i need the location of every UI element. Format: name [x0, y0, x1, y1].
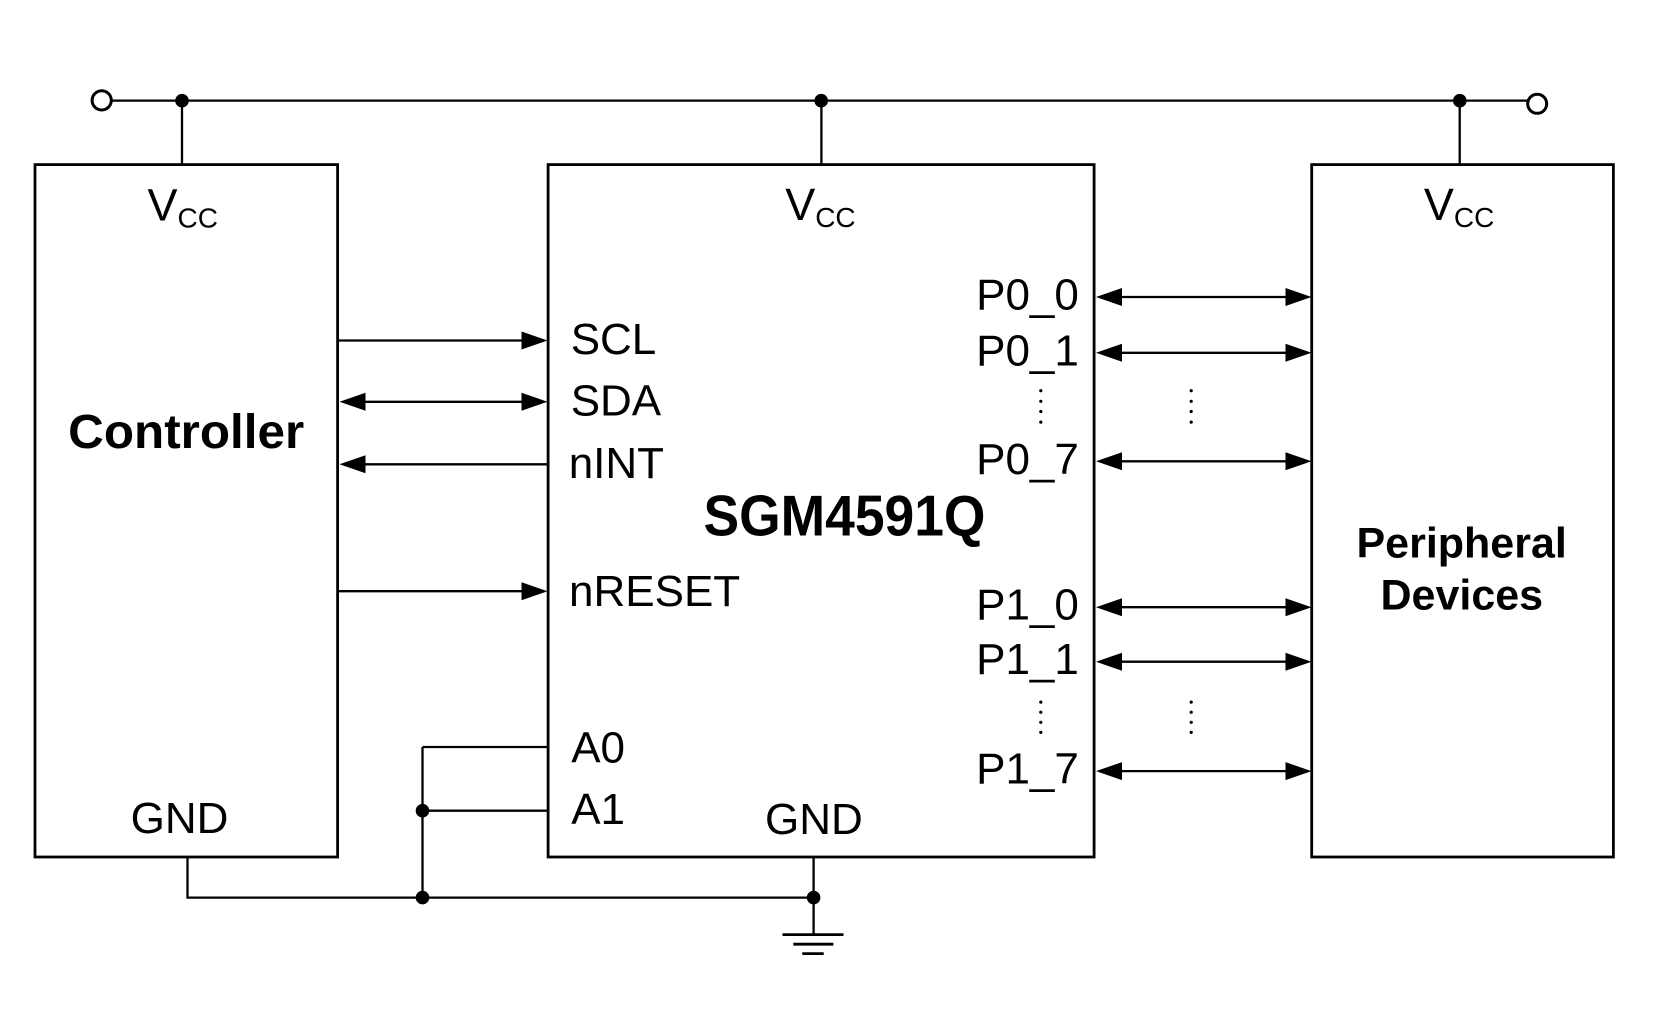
pin label GND Controller — [131, 794, 229, 843]
block Peripheral Devices — [1312, 165, 1614, 857]
label Devices — [1381, 572, 1544, 620]
svg-text:A1: A1 — [571, 785, 625, 834]
wire P0_1 bidirectional — [1096, 344, 1312, 362]
wire P1_7 bidirectional — [1096, 762, 1312, 780]
svg-text:P1_1: P1_1 — [976, 635, 1079, 684]
wire VCC top rail — [112, 99, 1527, 101]
ellipsis P1 labels — [1039, 701, 1042, 735]
wire P1_0 bidirectional — [1096, 598, 1312, 616]
label VCC Peripheral — [1424, 179, 1494, 233]
wire VCC stem Peripheral — [1459, 101, 1461, 165]
wire P1_1 bidirectional — [1096, 653, 1312, 671]
open terminal right (VCC input) — [1528, 94, 1547, 113]
wire GND stem SGM4591Q — [812, 857, 814, 935]
svg-text:Peripheral: Peripheral — [1357, 520, 1567, 568]
junction dot rail-Peripheral — [1453, 94, 1467, 108]
label VCC SGM4591Q — [785, 179, 855, 233]
junction dot rail-SGM4591Q — [814, 94, 828, 108]
wire A1 — [423, 810, 549, 812]
wire A0 — [423, 746, 549, 748]
svg-text:P0_7: P0_7 — [976, 435, 1079, 484]
ground symbol — [783, 935, 844, 954]
svg-text:GND: GND — [131, 794, 229, 843]
wire nINT — [340, 455, 548, 473]
svg-text:P1_7: P1_7 — [976, 745, 1079, 794]
ellipsis P0 labels — [1039, 389, 1042, 424]
svg-text:nINT: nINT — [569, 439, 664, 488]
pin label nRESET — [569, 567, 740, 616]
wire A0-A1-GND vertical — [421, 747, 423, 898]
svg-text:SDA: SDA — [571, 376, 662, 425]
label VCC Controller — [148, 179, 218, 233]
ellipsis P1 wires — [1190, 701, 1193, 735]
ellipsis P0 wires — [1190, 389, 1193, 424]
open terminal left (VCC input) — [92, 91, 111, 110]
pin label P1_0 — [976, 581, 1079, 630]
svg-text:SGM4591Q: SGM4591Q — [704, 483, 986, 547]
junction dot A-wire GND wire — [416, 891, 430, 905]
pin label A1 — [571, 785, 625, 834]
junction dot GND net — [807, 891, 821, 905]
wire VCC stem Controller — [181, 101, 183, 165]
svg-text:GND: GND — [765, 795, 863, 844]
pin label nINT — [569, 439, 664, 488]
svg-text:P0_1: P0_1 — [976, 326, 1079, 375]
label Controller — [68, 406, 304, 459]
wire VCC stem SGM4591Q — [820, 101, 822, 165]
svg-text:Devices: Devices — [1381, 572, 1544, 620]
pin label P1_7 — [976, 745, 1079, 794]
pin label P0_7 — [976, 435, 1079, 484]
svg-text:SCL: SCL — [571, 315, 657, 364]
svg-text:P1_0: P1_0 — [976, 581, 1079, 630]
wire SDA bidirectional — [340, 393, 548, 411]
wire nRESET — [338, 582, 548, 600]
svg-text:A0: A0 — [571, 724, 625, 773]
wire P0_7 bidirectional — [1096, 452, 1312, 470]
wire GND horizontal — [186, 896, 813, 898]
pin label P1_1 — [976, 635, 1079, 684]
block U1 SGM4591Q — [548, 165, 1094, 857]
label SGM4591Q — [704, 483, 986, 547]
wire SCL — [338, 332, 548, 350]
wire GND stem Controller — [186, 857, 188, 898]
junction dot rail-Controller — [175, 94, 189, 108]
pin label GND SGM4591Q — [765, 795, 863, 844]
pin label SDA — [571, 376, 662, 425]
label Peripheral — [1357, 520, 1567, 568]
wire P0_0 bidirectional — [1096, 288, 1312, 306]
svg-text:nRESET: nRESET — [569, 567, 740, 616]
pin label P0_1 — [976, 326, 1079, 375]
pin label P0_0 — [976, 271, 1079, 320]
svg-text:P0_0: P0_0 — [976, 271, 1079, 320]
svg-text:Controller: Controller — [68, 406, 304, 459]
block Controller — [35, 165, 338, 857]
pin label A0 — [571, 724, 625, 773]
junction dot A1 — [416, 804, 430, 818]
pin label SCL — [571, 315, 657, 364]
